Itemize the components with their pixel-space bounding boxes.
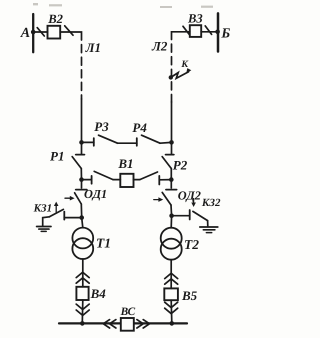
node on busbar B (215, 30, 220, 35)
svg-text:К: К (180, 59, 189, 70)
node B1 left (79, 177, 84, 182)
wire contact to node (159, 179, 171, 181)
wire P4 to right column (160, 141, 172, 144)
faint cut-off print at top edge (33, 3, 213, 8)
disconnector tick right of B2 (65, 26, 73, 35)
node B1 right (169, 177, 174, 182)
separator OD1 fixed contact (76, 189, 87, 191)
line L1 dashed (81, 40, 83, 99)
svg-text:В5: В5 (181, 288, 198, 303)
short-circuiter KZ2 blade (193, 211, 208, 220)
svg-text:А: А (20, 26, 30, 41)
KZ2 close arrow (193, 199, 195, 204)
wire T1 to B4 (82, 259, 84, 287)
svg-text:В2: В2 (47, 12, 63, 26)
B1 right fixed contact (158, 176, 160, 185)
KZ1 close arrow (55, 205, 57, 212)
wire node to B1 left contact (82, 179, 92, 181)
breaker B4 (76, 287, 88, 300)
wire B2 to corner of line L1 (60, 32, 81, 40)
KZ2 fixed contact (189, 210, 191, 220)
wire OD1 to KZ1 node (80, 204, 82, 218)
svg-text:В1: В1 (117, 156, 133, 171)
svg-text:В4: В4 (90, 286, 107, 301)
wire T2 to B5 (170, 260, 172, 289)
disconnector P1 blade (72, 157, 81, 169)
disconnector tick right of B3 (205, 26, 211, 35)
breaker B3 (190, 25, 201, 37)
node KZ2 junction (169, 213, 174, 218)
svg-text:Т1: Т1 (96, 235, 111, 250)
svg-text:Б: Б (220, 26, 230, 41)
svg-text:Л2: Л2 (151, 38, 168, 53)
disconnector tick left of B2 (37, 28, 44, 36)
wire P2 to B1 right node (170, 169, 172, 180)
svg-text:КЗ1: КЗ1 (33, 203, 53, 215)
disconnector P1 fixed contact (76, 154, 85, 156)
node bus T1 feed (80, 321, 85, 326)
drawout contact left chevrons of VS (103, 320, 109, 328)
wire to P1 (81, 142, 83, 153)
node KZ1 junction (79, 215, 84, 220)
drawout contact down chevrons below B5 (165, 302, 178, 307)
bus coupler VS (121, 318, 134, 331)
wire B3 to corner of line L2 (172, 32, 190, 40)
breaker B1 (120, 174, 133, 187)
svg-text:Л1: Л1 (85, 40, 101, 55)
node bus T2 feed (170, 321, 175, 326)
transformer T2 (161, 228, 182, 249)
drawout contact right chevrons of VS (137, 320, 143, 328)
wire B5 to bus (170, 300, 173, 322)
wire KZ1 to ground (43, 217, 50, 226)
OD2 trip arrow (154, 199, 160, 201)
fault lightning arrow K (171, 72, 189, 79)
svg-text:Т2: Т2 (184, 237, 199, 252)
disconnector tick left of B3 (183, 26, 189, 34)
svg-text:В3: В3 (187, 11, 203, 25)
wire KZ2 to ground (207, 221, 209, 227)
separator OD2 blade (162, 192, 171, 205)
wire L2 down to P4 junction (171, 102, 173, 142)
node P4 junction (169, 140, 174, 145)
node on busbar A (31, 30, 36, 35)
separator OD1 blade (75, 193, 82, 204)
svg-text:Р1: Р1 (50, 148, 64, 163)
wire to OD1 (81, 180, 83, 188)
breaker B5 (164, 288, 178, 300)
wire blade to breaker B1 (113, 179, 120, 181)
wire busbar A to breaker B2 (33, 31, 47, 33)
disconnector P2 blade (162, 157, 171, 169)
svg-text:ОД1: ОД1 (84, 187, 107, 201)
wire OD2 to KZ2 node (170, 205, 173, 216)
wire to P2 (171, 142, 173, 153)
svg-text:Р2: Р2 (173, 158, 188, 173)
disconnector P3 fixed contact (93, 138, 95, 146)
disconnector P3 blade (99, 135, 118, 143)
wire to P3 contact (82, 141, 94, 143)
svg-text:Р4: Р4 (132, 120, 147, 135)
disconnector P4 blade (142, 135, 161, 143)
wire B4 to bus (81, 300, 84, 323)
wire node to KZ2 contact (172, 215, 190, 217)
transformer T1 (72, 228, 93, 249)
svg-text:КЗ2: КЗ2 (201, 197, 221, 209)
svg-text:Р3: Р3 (94, 119, 109, 134)
wire to OD2 (170, 180, 172, 188)
svg-text:ВС: ВС (120, 306, 136, 318)
drawout contact up chevrons above B5 (165, 273, 178, 278)
svg-text:ОД2: ОД2 (178, 188, 201, 202)
drawout contact down chevrons below B4 (76, 304, 89, 309)
wire P3 to P4 (118, 142, 137, 144)
fault node K on line L2 (169, 75, 173, 79)
B1 left blade (94, 171, 113, 179)
busbar A (32, 14, 34, 52)
OD1 trip arrow (65, 197, 71, 199)
wire busbar B to breaker B3 (201, 31, 218, 33)
wire P1 to B1 node (80, 169, 82, 180)
wire KZ1 node to transformer T1 (82, 218, 83, 228)
low-voltage bus (59, 322, 187, 324)
busbar B (217, 13, 220, 51)
ground KZ2 (200, 226, 218, 228)
B1 left fixed contact (91, 176, 93, 184)
line L2 dashed (171, 40, 173, 103)
wire L1 down to P3 junction (81, 99, 83, 142)
disconnector P4 fixed contact (136, 138, 138, 146)
B1 right blade (140, 172, 158, 180)
node P3 junction (79, 140, 84, 145)
disconnector P2 fixed contact (166, 154, 174, 156)
wire B1 to right blade (134, 179, 140, 181)
KZ1 fixed contact (63, 212, 65, 220)
short-circuiter KZ1 blade (49, 209, 63, 216)
separator OD2 fixed contact (166, 189, 177, 191)
wire KZ2 node to transformer T2 (170, 216, 172, 228)
wire node to KZ1 contact (64, 217, 81, 219)
ground KZ1 (37, 226, 51, 228)
drawout contact up chevrons above B4 (76, 272, 89, 277)
breaker B2 (48, 26, 61, 39)
